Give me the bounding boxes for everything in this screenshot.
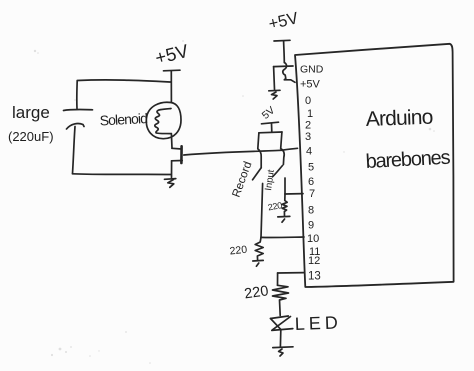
svg-text:Solenoid: Solenoid bbox=[99, 110, 147, 128]
svg-text:5: 5 bbox=[308, 162, 314, 174]
svg-text:13: 13 bbox=[308, 271, 321, 283]
svg-text:220: 220 bbox=[267, 200, 283, 212]
svg-text:2: 2 bbox=[305, 120, 311, 132]
svg-text:8: 8 bbox=[308, 205, 314, 217]
svg-text:12: 12 bbox=[308, 255, 320, 267]
svg-text:0: 0 bbox=[305, 95, 311, 107]
svg-text:+5V: +5V bbox=[267, 9, 300, 33]
svg-text:6: 6 bbox=[308, 176, 314, 188]
svg-text:LED: LED bbox=[294, 312, 342, 334]
svg-text:Record: Record bbox=[231, 160, 255, 199]
svg-text:4: 4 bbox=[306, 146, 312, 158]
svg-text:3: 3 bbox=[305, 131, 311, 143]
svg-text:barebones: barebones bbox=[365, 147, 451, 173]
svg-text:large: large bbox=[12, 103, 50, 122]
svg-text:GND: GND bbox=[300, 64, 324, 76]
svg-text:+5V: +5V bbox=[300, 79, 321, 91]
svg-text:(220uF): (220uF) bbox=[8, 129, 54, 144]
svg-text:10: 10 bbox=[307, 233, 319, 245]
svg-text:7: 7 bbox=[309, 188, 315, 200]
svg-text:Arduino: Arduino bbox=[365, 106, 433, 131]
svg-text:+5V: +5V bbox=[153, 40, 191, 69]
svg-text:220: 220 bbox=[229, 244, 248, 258]
svg-text:9: 9 bbox=[308, 220, 314, 232]
svg-text:220: 220 bbox=[243, 283, 269, 302]
svg-text:5V: 5V bbox=[260, 104, 278, 121]
svg-text:1: 1 bbox=[307, 108, 313, 120]
svg-text:Input: Input bbox=[263, 169, 277, 192]
